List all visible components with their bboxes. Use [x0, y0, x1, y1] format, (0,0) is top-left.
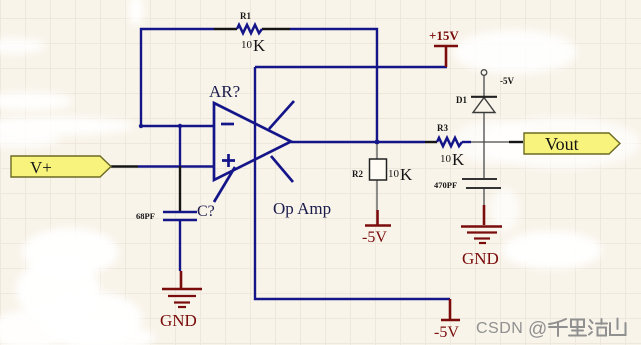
svg-text:68PF: 68PF [136, 211, 155, 221]
svg-text:C?: C? [197, 203, 215, 220]
svg-text:K: K [452, 150, 465, 169]
svg-text:+15V: +15V [429, 28, 459, 43]
svg-text:R1: R1 [240, 11, 251, 21]
svg-text:@: @ [528, 319, 547, 340]
svg-text:V+: V+ [30, 158, 52, 177]
svg-text:GND: GND [462, 249, 499, 268]
svg-text:K: K [253, 36, 266, 55]
svg-text:-5V: -5V [500, 76, 514, 86]
svg-text:R3: R3 [437, 123, 448, 133]
svg-text:470PF: 470PF [434, 180, 457, 190]
svg-text:AR?: AR? [209, 82, 240, 101]
svg-text:10: 10 [440, 153, 452, 165]
svg-text:-5V: -5V [434, 324, 459, 341]
svg-text:10: 10 [388, 168, 400, 180]
svg-text:R2: R2 [352, 169, 363, 179]
svg-text:CSDN: CSDN [476, 320, 523, 337]
svg-text:Op Amp: Op Amp [273, 199, 331, 218]
svg-text:Vout: Vout [545, 134, 579, 154]
svg-text:K: K [400, 165, 413, 184]
svg-text:-5V: -5V [362, 229, 387, 246]
svg-text:D1: D1 [456, 95, 467, 105]
svg-text:GND: GND [160, 311, 197, 330]
svg-text:10: 10 [241, 39, 253, 51]
